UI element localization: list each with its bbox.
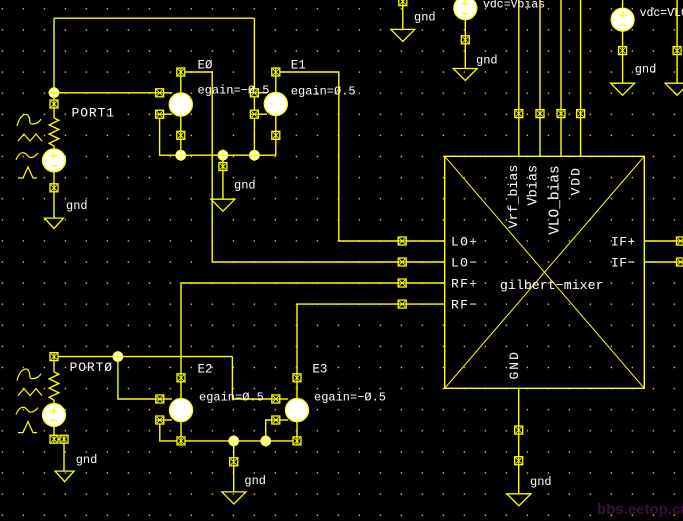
svg-text:bbs.eetop.cn: bbs.eetop.cn: [597, 501, 683, 518]
junction E0 bottom: [175, 149, 187, 161]
pin IF+: [677, 237, 683, 245]
wire gnd stub row2: [233, 441, 235, 492]
wire E1 left vertical: [253, 18, 255, 155]
wire E1 bottom pin drop: [275, 139, 277, 155]
wire E1 top to LO+ corner: [280, 72, 445, 241]
junction gnd row1: [217, 149, 229, 161]
wire vdc1 to gnd: [464, 19, 466, 69]
wire PORT1 to E0 left: [54, 92, 160, 94]
wire E0 top to LO- corner: [185, 72, 445, 262]
junction PORT0: [112, 351, 124, 363]
svg-text:Vrf_bias: Vrf_bias: [506, 165, 521, 229]
wire PORT0 to E2 left: [118, 357, 160, 399]
vcvs E0: [164, 76, 181, 131]
svg-text:gnd: gnd: [234, 179, 256, 193]
junction PORT1: [48, 87, 60, 99]
wire RF- net: [297, 304, 445, 378]
ground PORT1: [45, 218, 64, 229]
op-amp U1 gilbert-mixer box: [445, 156, 645, 388]
vdc V4 source: [611, 8, 634, 31]
svg-text:gnd: gnd: [66, 199, 88, 213]
pin Vrf_bias: [515, 110, 523, 118]
svg-text:E2: E2: [198, 363, 213, 377]
svg-text:VDD: VDD: [569, 166, 584, 195]
svg-text:vdc=Vbias: vdc=Vbias: [483, 0, 545, 12]
wire VLO_bias vertical: [560, 0, 562, 156]
ground vdc V4: [611, 83, 635, 95]
svg-text:gnd: gnd: [530, 475, 552, 489]
wire PORT0 horizontal: [54, 356, 232, 358]
ground row2: [222, 492, 246, 504]
wire gnd top-left: [402, 0, 404, 29]
wire right edge gnd: [676, 0, 678, 83]
svg-text:RF+: RF+: [451, 277, 478, 292]
svg-text:gnd: gnd: [476, 53, 498, 67]
svg-text:E1: E1: [291, 59, 306, 73]
junction gnd row2: [228, 435, 240, 447]
pin VLO_bias: [557, 110, 565, 118]
pin LO-: [398, 258, 406, 266]
vcvs E2: [164, 382, 181, 437]
wire E3 bl drop: [266, 420, 272, 441]
wire VDD vertical: [580, 0, 582, 156]
pin RF+: [398, 279, 406, 287]
pin LO+: [398, 237, 406, 245]
wire vdc2 top: [622, 0, 624, 8]
svg-text:Vbias: Vbias: [526, 165, 541, 206]
svg-text:gnd: gnd: [244, 474, 266, 488]
pin gnd row1: [219, 163, 227, 171]
wire E0 bottom rail: [160, 118, 276, 155]
pin vdc V4: [619, 47, 627, 55]
ground top-left: [391, 29, 415, 41]
svg-text:E3: E3: [312, 363, 327, 377]
port PORT1: [49, 108, 59, 218]
ground mixer: [507, 494, 531, 506]
ground vdc V3: [453, 69, 477, 81]
wire E2 bl drop: [160, 424, 297, 441]
svg-text:PORT1: PORT1: [72, 106, 116, 121]
ground row1: [211, 199, 235, 211]
wire mixer GND: [518, 388, 520, 494]
pin gnd top-left: [399, 0, 407, 6]
pin IF-: [677, 258, 683, 266]
svg-text:PORTØ: PORTØ: [70, 360, 114, 375]
wire Vbias vertical: [539, 0, 541, 156]
svg-text:gnd: gnd: [414, 10, 436, 24]
svg-text:GND: GND: [507, 350, 522, 379]
pin mixer GND upper: [515, 426, 523, 434]
svg-text:EØ: EØ: [198, 59, 214, 73]
svg-text:IF−: IF−: [611, 256, 636, 271]
pin VDD: [577, 110, 585, 118]
wire gnd stub row1: [222, 155, 224, 199]
pin mixer GND lower: [515, 457, 523, 465]
wire net LO- top from PORT1: [54, 17, 254, 19]
port PORT0: [49, 361, 64, 472]
svg-text:LO−: LO−: [451, 256, 478, 271]
svg-text:gnd: gnd: [76, 453, 98, 467]
wire E0 bottom pin drop: [180, 139, 182, 155]
ground right edge: [665, 83, 683, 95]
svg-text:gilbert−mixer: gilbert−mixer: [500, 278, 604, 293]
pin vdc V3: [461, 36, 469, 44]
svg-text:vdc=VLO: vdc=VLO: [640, 7, 683, 20]
vcvs E1: [258, 76, 275, 131]
pin Vbias: [536, 110, 544, 118]
vdc V3 source: [454, 0, 477, 20]
wire Vrf_bias vertical: [518, 0, 520, 156]
svg-text:RF−: RF−: [451, 298, 478, 313]
wire vdc2 to gnd: [622, 31, 624, 83]
junction E1 vertical: [249, 149, 261, 161]
wire IF+ stub: [644, 240, 683, 242]
ground PORT0: [55, 471, 74, 482]
svg-text:egain=Ø.5: egain=Ø.5: [199, 391, 264, 405]
svg-text:VLO_bias: VLO_bias: [547, 165, 563, 235]
svg-text:gnd: gnd: [635, 63, 657, 77]
svg-text:egain=−Ø.5: egain=−Ø.5: [314, 391, 386, 405]
wire IF- stub: [644, 261, 683, 263]
pin RF-: [398, 300, 406, 308]
wire PORT1 vertical: [53, 18, 55, 104]
pin gnd row2: [230, 458, 238, 466]
wire RF+ net: [181, 283, 445, 378]
svg-text:egain=−Ø.5: egain=−Ø.5: [198, 84, 270, 98]
vcvs E3: [280, 382, 297, 437]
pin right edge: [673, 47, 681, 55]
junction E3 bl: [260, 435, 272, 447]
svg-text:egain=Ø.5: egain=Ø.5: [291, 85, 356, 99]
svg-text:LO+: LO+: [451, 235, 478, 250]
wire PORT0 to E3 left: [232, 357, 275, 399]
svg-text:IF+: IF+: [611, 235, 636, 250]
